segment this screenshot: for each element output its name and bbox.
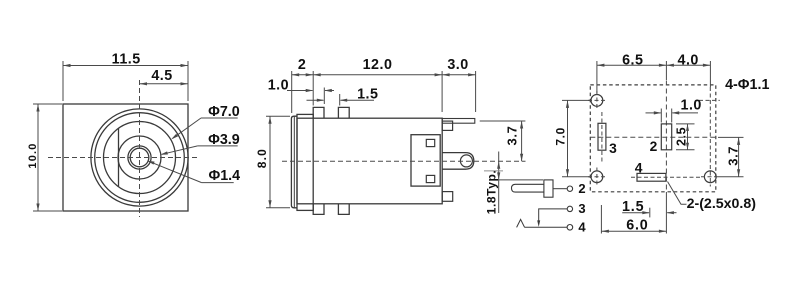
top right lug: [442, 121, 452, 130]
top tab 2: [338, 107, 349, 118]
svg-text:11.5: 11.5: [112, 52, 141, 68]
dimension 4.0: [709, 61, 711, 87]
svg-text:1.5: 1.5: [622, 199, 644, 215]
svg-text:2: 2: [578, 181, 585, 196]
dimension 1.5 tab gap: [307, 99, 324, 101]
svg-text:1.8Typ.: 1.8Typ.: [484, 170, 498, 215]
dimension 6.0: [600, 205, 602, 234]
dimension 10.0: [33, 103, 62, 105]
pin 4 node circle: [567, 225, 573, 231]
bottom tab 1: [313, 204, 324, 215]
slot 3 centerline: [601, 112, 603, 162]
svg-text:4: 4: [578, 220, 586, 235]
pcb horizontal centerline: [590, 136, 716, 138]
svg-text:6.0: 6.0: [626, 218, 648, 234]
rear switch block: [411, 135, 440, 186]
dimension 11.5: [62, 61, 64, 101]
svg-text:1.0: 1.0: [268, 77, 289, 93]
outer ring circle: [91, 109, 188, 206]
pin 2 node circle: [567, 186, 572, 191]
svg-text:4-Φ1.1: 4-Φ1.1: [725, 77, 769, 93]
circle D3.9: [118, 136, 161, 179]
label D7.0 with leader: [201, 117, 238, 119]
dimension 1.8Typ.: [494, 179, 543, 181]
collar ring: [297, 114, 313, 210]
hole top-left: [591, 95, 603, 107]
dimension 3.7 side view: [480, 120, 526, 122]
dimension 3.0: [475, 71, 477, 112]
hole bottom-left: [591, 171, 603, 183]
svg-text:4: 4: [635, 161, 643, 176]
dimension 2.5 slot2 height: [676, 123, 695, 125]
pcb outline dashed rect: [590, 85, 716, 192]
switch block lower pin hole: [426, 175, 434, 182]
pin 2 terminal lug: [512, 184, 544, 192]
eyelet hole circle: [460, 155, 472, 167]
svg-text:3: 3: [609, 141, 617, 156]
circle D1.4 center pin hole: [130, 148, 149, 167]
bottom right lug: [442, 192, 453, 202]
svg-text:1.0: 1.0: [681, 98, 702, 114]
pin 2 terminal plate: [544, 180, 553, 197]
svg-text:4.5: 4.5: [151, 68, 172, 84]
side view: front flange plate: [291, 116, 297, 208]
centerline side view: [282, 160, 526, 162]
svg-text:Φ3.9: Φ3.9: [208, 132, 240, 148]
dimension 1.0 tab: [287, 90, 313, 92]
outer ring inner circle: [95, 113, 185, 203]
svg-text:1.5: 1.5: [357, 87, 378, 103]
svg-text:3.7: 3.7: [505, 126, 520, 146]
svg-text:3: 3: [578, 201, 585, 216]
switch block upper pin hole: [426, 139, 434, 146]
bottom tab 2: [338, 204, 349, 215]
dimension 6.5: [596, 61, 598, 93]
slot 2: [661, 124, 671, 150]
hole bottom-right: [704, 171, 716, 183]
dimension 2: [291, 71, 293, 113]
dimension 12.0: [441, 71, 443, 112]
circle D7.0 with flat chord: [104, 122, 176, 194]
svg-text:2: 2: [298, 57, 306, 73]
svg-text:Φ1.4: Φ1.4: [209, 168, 241, 184]
pin 3 wire: [539, 209, 568, 223]
pin 4 switch zigzag: [517, 219, 525, 227]
dimension 4.5: [140, 83, 189, 85]
left view: front face square body: [63, 104, 188, 211]
dimension 1.5 pcb: [622, 212, 649, 214]
pin 3 node circle: [567, 206, 572, 211]
pcb vertical centerline: [665, 81, 667, 193]
svg-text:7.0: 7.0: [553, 127, 567, 145]
hole centerline marks: [588, 99, 607, 101]
svg-text:2.5: 2.5: [674, 127, 688, 146]
svg-text:10.0: 10.0: [27, 142, 39, 168]
dimension 7.0: [562, 99, 591, 101]
slot 4 centerline: [631, 176, 700, 178]
svg-text:8.0: 8.0: [255, 148, 269, 168]
label D1.4 with leader: [202, 182, 234, 184]
chord flat of D7.0: [118, 128, 120, 186]
svg-text:Φ7.0: Φ7.0: [208, 104, 240, 120]
svg-text:4.0: 4.0: [678, 53, 699, 69]
main body rectangle: [297, 118, 442, 204]
slot 3: [598, 123, 606, 150]
dimension 1.0 slot2: [646, 112, 661, 114]
label D3.9 with leader: [198, 145, 238, 147]
flat terminal pin top right: [442, 119, 475, 124]
dimension 3.7 pcb: [718, 136, 744, 138]
center bushing circle: [128, 146, 151, 169]
pin 2 wire: [553, 188, 567, 190]
top tab 1: [313, 107, 324, 118]
top-right hole cross: [699, 99, 720, 101]
label 2-(2.5x0.8) with leader: [668, 182, 687, 205]
slot 4: [637, 173, 666, 181]
dimension 8.0: [266, 115, 290, 117]
svg-text:2: 2: [650, 139, 658, 154]
svg-text:2-(2.5x0.8): 2-(2.5x0.8): [687, 196, 757, 212]
round eyelet pin: [442, 153, 474, 170]
centerline horizontal left view: [48, 157, 198, 159]
centerline vertical left view: [139, 80, 141, 217]
svg-text:3.0: 3.0: [447, 57, 468, 73]
svg-text:6.5: 6.5: [622, 53, 643, 69]
flange inner edge line: [293, 116, 295, 208]
pin 4 wire: [525, 226, 567, 228]
svg-text:3.7: 3.7: [725, 146, 740, 166]
svg-text:12.0: 12.0: [363, 57, 393, 73]
